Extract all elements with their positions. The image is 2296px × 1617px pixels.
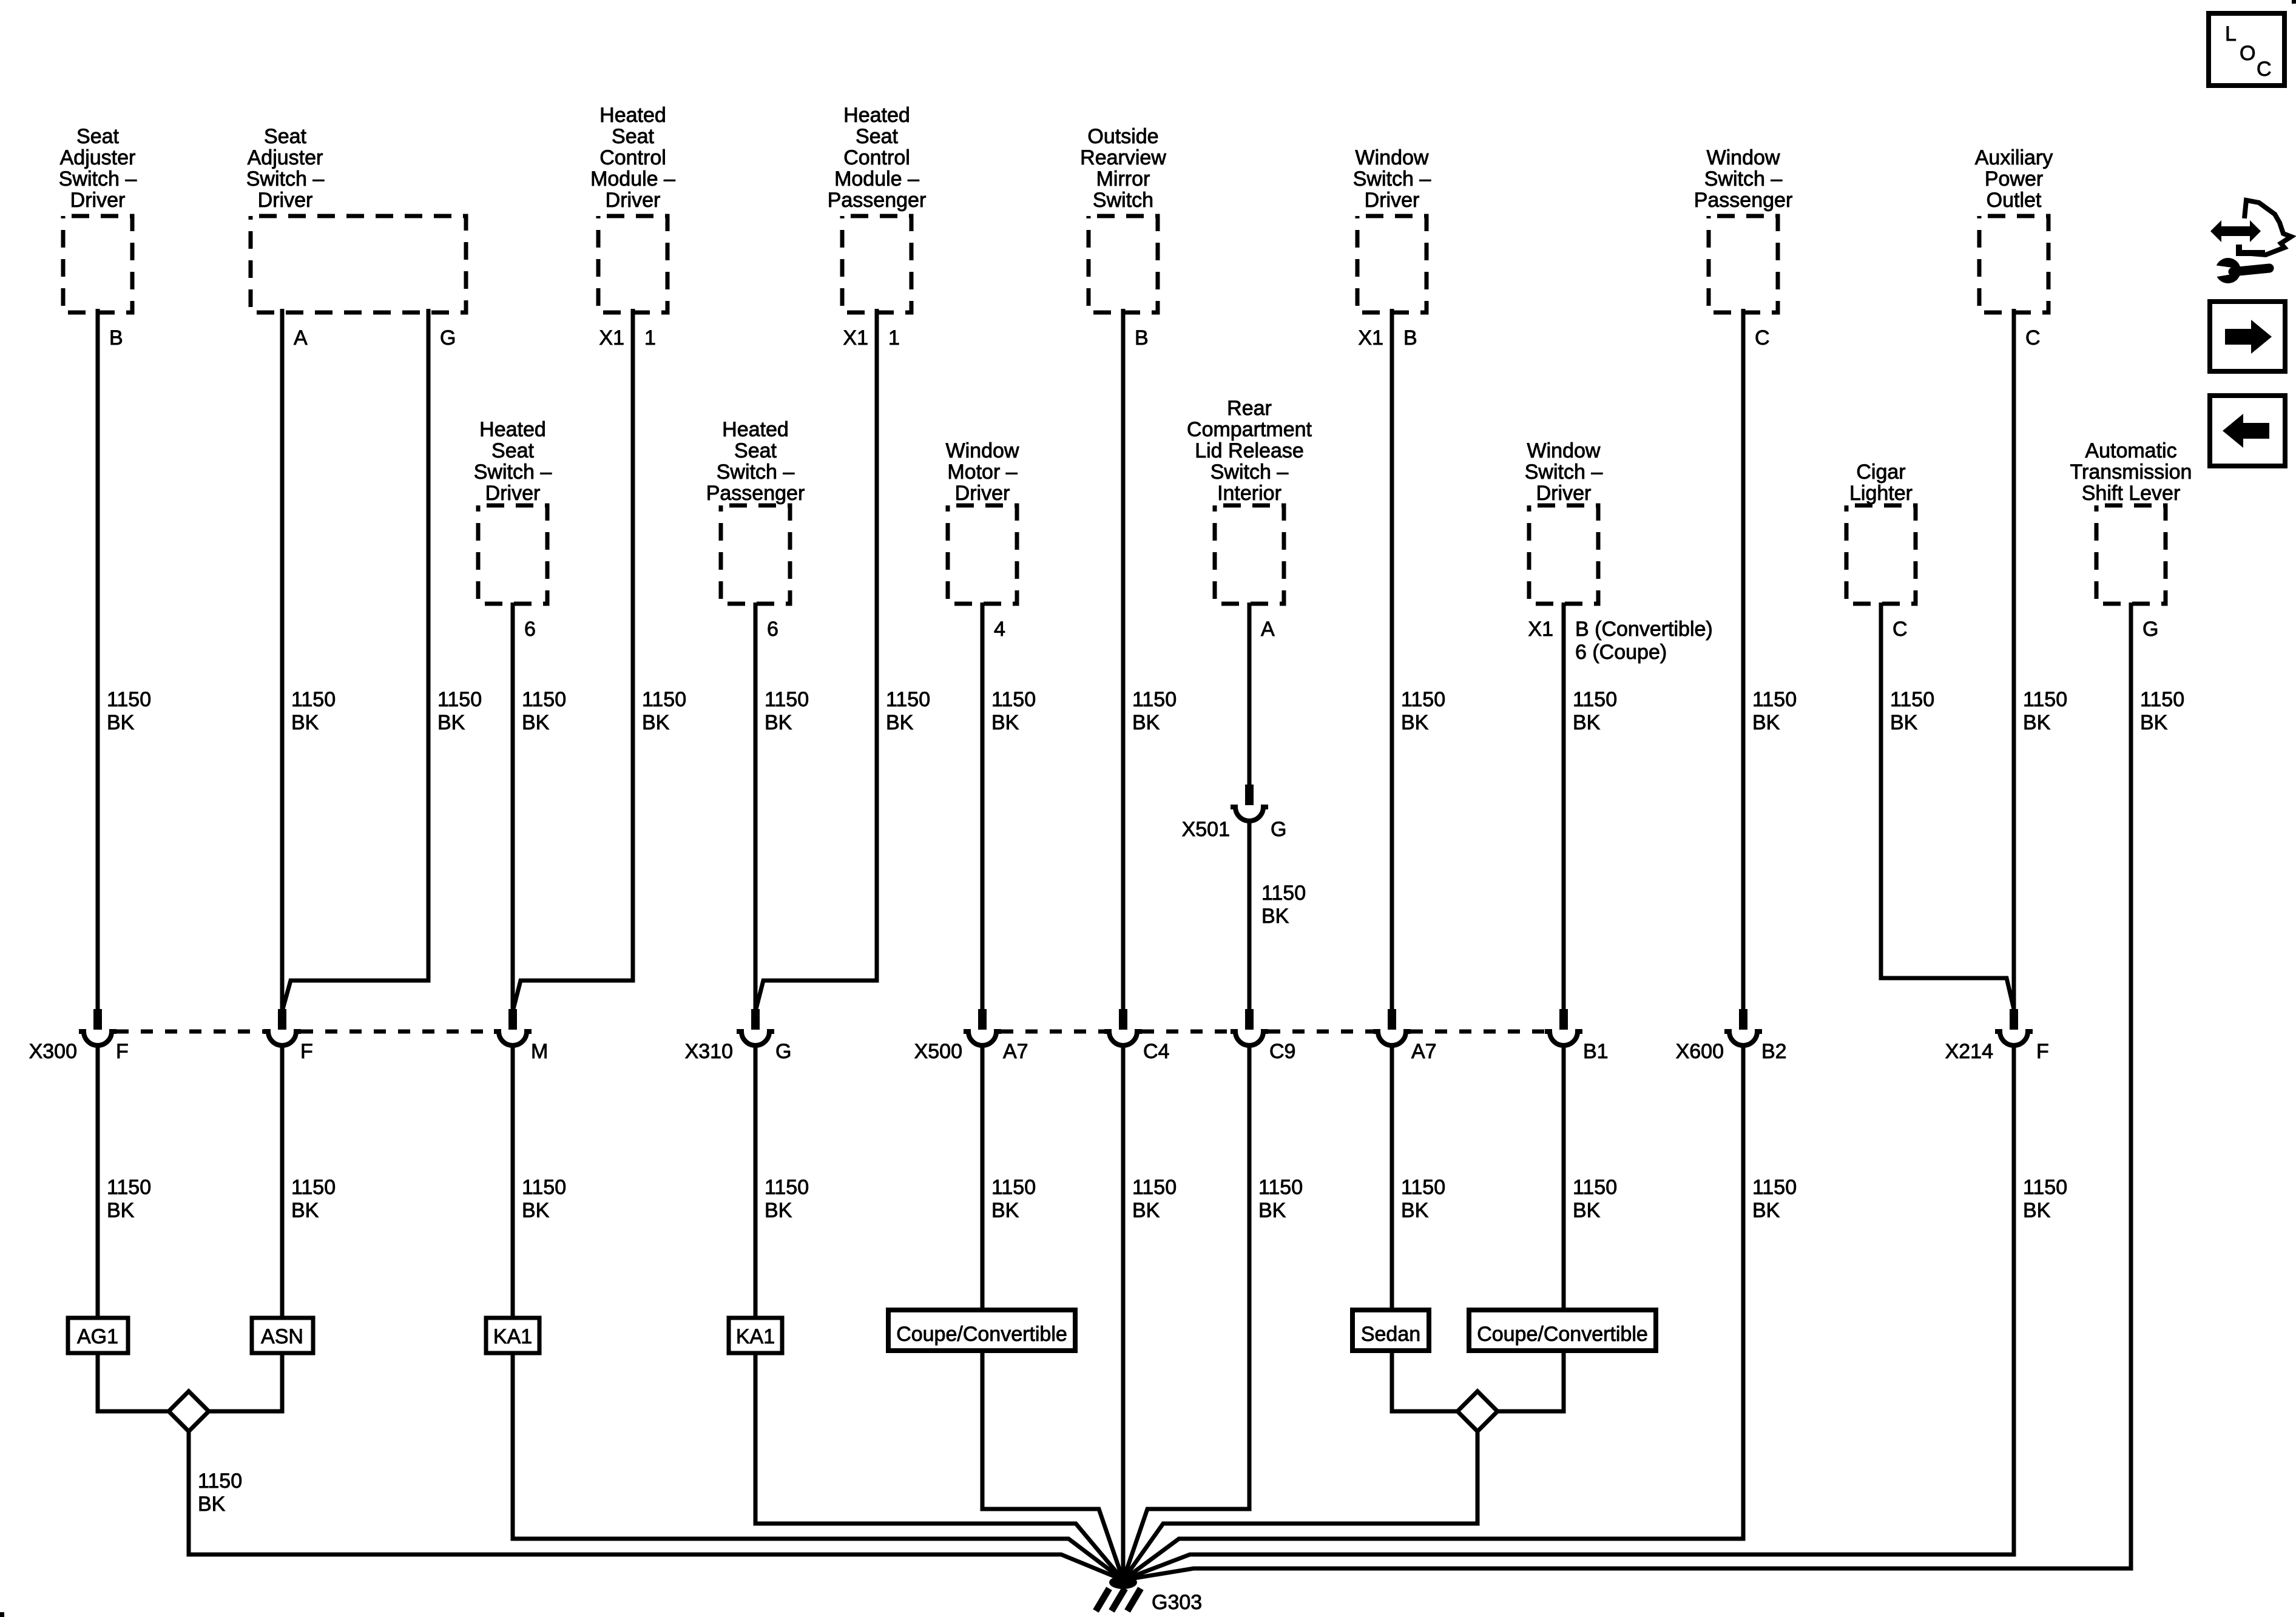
connector X300 pin M <box>494 1009 532 1045</box>
legend box: forward arrow <box>2210 302 2285 371</box>
component box: Heated Seat Switch - Driver <box>478 505 547 604</box>
connector X300 pin F (second) <box>263 1009 301 1045</box>
svg-text:M: M <box>531 1040 548 1063</box>
wire: splice diamond (Sedan/Coupe) to ground bus <box>1123 1431 1477 1580</box>
option box Sedan <box>1352 1310 1429 1351</box>
svg-text:F: F <box>116 1040 129 1063</box>
svg-text:B1: B1 <box>1583 1040 1609 1063</box>
svg-text:Driver: Driver <box>955 482 1010 505</box>
node label A7 (window switch) <box>1411 1040 1437 1063</box>
pin 6 of Heated Seat Switch - Passenger <box>767 618 778 641</box>
svg-text:X1: X1 <box>599 326 624 349</box>
wire label 1150 BK (lower, wire x=2294) <box>1401 1176 1445 1222</box>
label: Outside Rearview Mirror Switch <box>1080 125 1166 212</box>
svg-text:BK: BK <box>765 711 792 734</box>
svg-text:BK: BK <box>291 711 319 734</box>
svg-text:G: G <box>1271 818 1286 841</box>
svg-text:A: A <box>1261 618 1275 641</box>
svg-text:BK: BK <box>1132 1199 1160 1222</box>
svg-text:BK: BK <box>991 1199 1019 1222</box>
svg-text:6 (Coupe): 6 (Coupe) <box>1575 641 1667 664</box>
svg-text:1: 1 <box>644 326 656 349</box>
svg-text:BK: BK <box>522 711 550 734</box>
svg-text:A7: A7 <box>1411 1040 1437 1063</box>
svg-text:6: 6 <box>524 618 536 641</box>
component box: Window Switch - Driver (second row) <box>1529 505 1598 604</box>
wire label 1150 BK (upper, wire x=706) <box>437 688 482 734</box>
component box: Window Switch - Driver (top row) <box>1357 216 1427 312</box>
svg-text:1150: 1150 <box>1401 1176 1445 1199</box>
component box: Automatic Transmission Shift Lever <box>2096 505 2166 604</box>
label: Seat Adjuster Switch - Driver (wide) <box>246 125 325 212</box>
component box: Heated Seat Switch - Passenger <box>721 505 790 604</box>
svg-text:Driver: Driver <box>70 189 126 212</box>
wire: Rear Compartment Lid Release pin A down to splice X501 <box>1248 603 1252 786</box>
svg-text:BK: BK <box>1890 711 1918 734</box>
svg-text:1150: 1150 <box>886 688 930 711</box>
svg-text:KA1: KA1 <box>493 1325 532 1348</box>
wire label 1150 BK (lower, wire x=1245) <box>765 1176 809 1222</box>
svg-text:Switch –: Switch – <box>1353 167 1431 191</box>
wire label 1150 BK (upper, wire x=161) <box>107 688 151 734</box>
svg-text:Switch –: Switch – <box>717 461 795 484</box>
svg-text:1150: 1150 <box>107 1176 151 1199</box>
svg-text:X1: X1 <box>1358 326 1383 349</box>
svg-text:Switch –: Switch – <box>246 167 325 191</box>
svg-text:BK: BK <box>642 711 670 734</box>
component box: Heated Seat Control Module - Driver <box>598 216 667 312</box>
svg-text:BK: BK <box>765 1199 792 1222</box>
wire label 1150 BK (upper, wire x=1043) <box>642 688 686 734</box>
node label X600 B2 <box>1676 1040 1787 1063</box>
wire: connector F (second) down to ASN <box>280 1044 285 1318</box>
svg-text:1150: 1150 <box>642 688 686 711</box>
option box Coupe/Convertible (window motor) <box>888 1310 1075 1351</box>
svg-text:1150: 1150 <box>107 688 151 711</box>
svg-text:Outside: Outside <box>1087 125 1158 148</box>
svg-text:B (Convertible): B (Convertible) <box>1575 618 1713 641</box>
wire label 1150 BK (lower, wire x=3319) <box>2023 1176 2067 1222</box>
value box AG1 <box>68 1318 128 1353</box>
pin A of Rear Compartment Lid Release Switch <box>1261 618 1275 641</box>
wire label 1150 BK (lower, wire x=465) <box>291 1176 336 1222</box>
svg-text:F: F <box>300 1040 313 1063</box>
wire label 1150 BK (lower, wire x=161) <box>107 1176 151 1222</box>
svg-text:BK: BK <box>1752 1199 1780 1222</box>
svg-text:BK: BK <box>1401 711 1429 734</box>
svg-text:1150: 1150 <box>437 688 482 711</box>
wire: Heated Seat Control Module-Driver elbow to connector M <box>513 309 633 1009</box>
svg-text:1150: 1150 <box>1401 688 1445 711</box>
splice diamond (Sedan/Coupe) <box>1457 1391 1497 1431</box>
node label X501 G <box>1182 818 1287 841</box>
component box: Auxiliary Power Outlet <box>1979 216 2048 312</box>
dashed harness line X500 connectors A7-B1 <box>1411 1030 1545 1034</box>
svg-text:1150: 1150 <box>1132 688 1177 711</box>
wire label 1150 BK (lower, wire x=1619) <box>991 1176 1036 1222</box>
svg-text:G: G <box>440 326 456 349</box>
svg-text:1150: 1150 <box>991 1176 1036 1199</box>
svg-text:BK: BK <box>2023 711 2051 734</box>
wire label 1150 BK (lower, wire x=2577) <box>1573 1176 1617 1222</box>
legend icon: wrench with arrows (diagnostic) <box>2210 200 2291 283</box>
pin G of Seat Adjuster Switch - Driver (wide) <box>440 326 456 349</box>
label: Window Motor - Driver <box>946 439 1019 505</box>
svg-text:BK: BK <box>1132 711 1160 734</box>
pin 4 of Window Motor - Driver <box>994 618 1005 641</box>
wire label 1150 BK (splice diamond output) <box>198 1470 242 1516</box>
svg-text:O: O <box>2240 42 2255 65</box>
svg-text:Seat: Seat <box>491 439 534 462</box>
component box: Heated Seat Control Module - Passenger <box>842 216 911 312</box>
svg-text:Passenger: Passenger <box>828 189 927 212</box>
dashed harness line X500 connectors C9-A7 <box>1268 1030 1373 1034</box>
pin X1 B of Window Switch - Driver (top row) <box>1358 326 1417 349</box>
wire label 1150 BK (below splice X501) <box>1261 882 1306 928</box>
pin B of Outside Rearview Mirror Switch <box>1135 326 1149 349</box>
svg-text:AG1: AG1 <box>77 1325 118 1348</box>
svg-text:Window: Window <box>1356 146 1429 169</box>
svg-text:C9: C9 <box>1269 1040 1295 1063</box>
svg-text:1150: 1150 <box>1261 882 1306 905</box>
wire: connector M down to KA1 <box>511 1044 515 1318</box>
svg-text:Driver: Driver <box>485 482 541 505</box>
svg-text:Module –: Module – <box>834 167 919 191</box>
label: Automatic Transmission Shift Lever <box>2070 439 2192 505</box>
LOC legend box <box>2209 13 2284 86</box>
svg-text:Lighter: Lighter <box>1849 482 1913 505</box>
label: Window Switch - Driver (top row) <box>1353 146 1431 212</box>
pin A of Seat Adjuster Switch - Driver (wide) <box>294 326 308 349</box>
wire: KA1 down to ground bus <box>513 1353 1123 1580</box>
pin B of Seat Adjuster Switch - Driver (left) <box>109 326 123 349</box>
wire: connector C9 down to ground bus <box>1123 1044 1249 1580</box>
svg-text:C: C <box>1755 326 1770 349</box>
wire: Heated Seat Switch-Driver pin 6 down to connector M <box>511 603 515 1011</box>
svg-text:Auxiliary: Auxiliary <box>1975 146 2053 169</box>
svg-text:X1: X1 <box>843 326 868 349</box>
svg-text:Cigar: Cigar <box>1856 461 1905 484</box>
legend icon: left arrow <box>2223 414 2269 448</box>
svg-text:X214: X214 <box>1945 1040 1993 1063</box>
wire label 1150 BK (upper, wire x=1851) <box>1132 688 1177 734</box>
svg-text:Sedan: Sedan <box>1361 1323 1420 1346</box>
svg-text:Control: Control <box>599 146 666 169</box>
legend icon: right arrow <box>2225 320 2272 354</box>
svg-text:Rearview: Rearview <box>1080 146 1166 169</box>
svg-text:G: G <box>775 1040 791 1063</box>
wire: Auxiliary Power Outlet down to connector X214 F <box>2012 309 2016 1011</box>
wire: Cigar Lighter elbow to connector X214 F <box>1881 603 2014 1009</box>
connector X500 pin C9 <box>1231 1009 1268 1045</box>
label: Auxiliary Power Outlet <box>1975 146 2053 212</box>
component box: Seat Adjuster Switch - Driver (wide) <box>251 216 466 312</box>
svg-text:BK: BK <box>291 1199 319 1222</box>
svg-text:1150: 1150 <box>1132 1176 1177 1199</box>
label: Heated Seat Control Module - Driver <box>590 104 675 212</box>
component box: Seat Adjuster Switch - Driver (left) <box>63 216 132 312</box>
svg-text:Seat: Seat <box>856 125 898 148</box>
svg-text:Passenger: Passenger <box>706 482 805 505</box>
dashed harness line X500 connectors C4-C9 <box>1142 1030 1231 1034</box>
label: Heated Seat Switch - Passenger <box>706 418 805 505</box>
wire label 1150 BK (lower, wire x=1851) <box>1132 1176 1177 1222</box>
svg-text:Heated: Heated <box>479 418 546 441</box>
value box KA1 (second) <box>729 1318 782 1353</box>
wire: connector X214 F down to ground bus <box>1123 1044 2014 1580</box>
dashed harness line X300 connectors F-M <box>301 1030 494 1034</box>
wire: connector B1 down through Coupe/Convertible to splice diamond <box>1497 1044 1564 1411</box>
label: Window Switch - Driver (second row) <box>1525 439 1603 505</box>
pin X1 1 of Heated Seat Control Module - Passenger <box>843 326 900 349</box>
svg-text:Passenger: Passenger <box>1694 189 1793 212</box>
svg-text:Shift Lever: Shift Lever <box>2082 482 2181 505</box>
connector X500 pin A7 <box>964 1009 1001 1045</box>
option box Coupe/Convertible (window switch) <box>1469 1310 1656 1351</box>
node label M <box>531 1040 548 1063</box>
wire: Outside Rearview Mirror Switch pin B down to connector C4 <box>1121 309 1126 1011</box>
svg-text:1150: 1150 <box>1573 1176 1617 1199</box>
svg-text:X500: X500 <box>914 1040 962 1063</box>
svg-text:C4: C4 <box>1143 1040 1169 1063</box>
label: Window Switch - Passenger <box>1694 146 1793 212</box>
svg-text:Switch –: Switch – <box>59 167 137 191</box>
wire: Seat Adjuster Switch-Driver pin B down to connector X300 F <box>96 309 100 1011</box>
svg-text:Seat: Seat <box>264 125 306 148</box>
svg-text:1150: 1150 <box>2023 688 2067 711</box>
svg-text:B2: B2 <box>1761 1040 1787 1063</box>
wire: Window Switch-Driver (top) down to connector A7 <box>1390 309 1394 1011</box>
svg-text:C: C <box>2025 326 2041 349</box>
svg-text:1150: 1150 <box>198 1470 242 1493</box>
svg-text:Coupe/Convertible: Coupe/Convertible <box>1477 1323 1648 1346</box>
svg-text:Control: Control <box>843 146 910 169</box>
page corner mark (bottom left) <box>0 1612 4 1617</box>
splice connector X501 pin G <box>1231 785 1268 821</box>
svg-text:BK: BK <box>1261 905 1289 928</box>
svg-text:Window: Window <box>946 439 1019 462</box>
node label X310 G <box>685 1040 792 1063</box>
svg-text:B: B <box>1135 326 1149 349</box>
svg-text:Transmission: Transmission <box>2070 461 2192 484</box>
svg-text:Driver: Driver <box>1536 482 1592 505</box>
svg-text:1150: 1150 <box>2140 688 2184 711</box>
svg-text:Switch: Switch <box>1093 189 1153 212</box>
svg-text:Heated: Heated <box>843 104 910 127</box>
svg-text:BK: BK <box>107 1199 135 1222</box>
svg-text:1150: 1150 <box>1258 1176 1303 1199</box>
svg-text:Switch –: Switch – <box>1704 167 1783 191</box>
wire: connector C4 straight down to ground G303 <box>1121 1044 1126 1580</box>
svg-text:1150: 1150 <box>522 688 566 711</box>
svg-text:BK: BK <box>2023 1199 2051 1222</box>
wire: connector F down to AG1 <box>96 1044 100 1318</box>
wire label 1150 BK (upper, wire x=845) <box>522 688 566 734</box>
svg-text:KA1: KA1 <box>736 1325 775 1348</box>
svg-text:BK: BK <box>991 711 1019 734</box>
wire: splice diamond (AG1/ASN) to ground bus <box>189 1431 1123 1580</box>
wire: Seat Adjuster Switch-Driver pin G elbow to connector F <box>283 309 428 1009</box>
label: Heated Seat Switch - Driver <box>474 418 552 505</box>
svg-text:BK: BK <box>2140 711 2168 734</box>
svg-text:1150: 1150 <box>765 688 809 711</box>
svg-text:Seat: Seat <box>76 125 119 148</box>
svg-text:Module –: Module – <box>590 167 675 191</box>
svg-text:Switch –: Switch – <box>474 461 552 484</box>
svg-text:BK: BK <box>522 1199 550 1222</box>
wire label 1150 BK (upper, wire x=3512) <box>2140 688 2184 734</box>
component box: Window Switch - Passenger <box>1709 216 1778 312</box>
svg-text:A7: A7 <box>1003 1040 1028 1063</box>
svg-text:C: C <box>2257 58 2272 81</box>
svg-text:Adjuster: Adjuster <box>60 146 136 169</box>
label: Heated Seat Control Module - Passenger <box>828 104 927 212</box>
node label F (second) <box>300 1040 313 1063</box>
svg-text:Switch –: Switch – <box>1210 461 1289 484</box>
wire: Automatic Transmission Shift Lever down to ground bus <box>1123 603 2131 1580</box>
dashed harness line X500 connectors A7-C4 <box>1001 1030 1104 1034</box>
svg-text:ASN: ASN <box>261 1325 303 1348</box>
svg-text:1150: 1150 <box>291 1176 336 1199</box>
dashed harness line X300 connectors F-F <box>116 1030 263 1034</box>
wire: Heated Seat Switch-Passenger pin 6 down to connector X310 G <box>754 603 758 1011</box>
svg-text:1150: 1150 <box>1752 688 1797 711</box>
wire label 1150 BK (upper, wire x=3100) <box>1890 688 1934 734</box>
svg-text:BK: BK <box>886 711 914 734</box>
wire: connector A7 down through Sedan to splice diamond <box>1392 1044 1457 1411</box>
svg-text:1150: 1150 <box>291 688 336 711</box>
svg-text:X1: X1 <box>1528 618 1553 641</box>
component box: Outside Rearview Mirror Switch <box>1089 216 1158 312</box>
wire: Window Switch-Passenger down to connector X600 B2 <box>1741 309 1746 1011</box>
node label X500 A7 <box>914 1040 1028 1063</box>
wire label 1150 BK (upper, wire x=465) <box>291 688 336 734</box>
pin X1 1 of Heated Seat Control Module - Driver <box>599 326 656 349</box>
svg-text:1150: 1150 <box>991 688 1036 711</box>
svg-text:6: 6 <box>767 618 778 641</box>
svg-text:B: B <box>1403 326 1417 349</box>
wire: Window Motor-Driver pin 4 down to connector X500 A7 <box>981 603 985 1011</box>
LOC legend letters <box>2225 22 2272 81</box>
node label B1 <box>1583 1040 1609 1063</box>
svg-text:Heated: Heated <box>599 104 666 127</box>
wire label 1150 BK (lower, wire x=2873) <box>1752 1176 1797 1222</box>
svg-text:Interior: Interior <box>1217 482 1281 505</box>
wire: Window Switch-Driver (second row) down to connector B1 <box>1562 603 1566 1011</box>
svg-text:Lid Release: Lid Release <box>1195 439 1304 462</box>
svg-text:Compartment: Compartment <box>1187 418 1312 441</box>
wire label 1150 BK (upper, wire x=2873) <box>1752 688 1797 734</box>
svg-text:BK: BK <box>107 711 135 734</box>
pin C of Cigar Lighter <box>1893 618 1908 641</box>
connector X310 pin G <box>737 1009 774 1045</box>
node label C9 <box>1269 1040 1295 1063</box>
svg-text:1150: 1150 <box>522 1176 566 1199</box>
wire label 1150 BK (lower, wire x=2059) <box>1258 1176 1303 1222</box>
pin G of Automatic Transmission Shift Lever <box>2142 618 2158 641</box>
wire label 1150 BK (upper, wire x=1245) <box>765 688 809 734</box>
svg-text:1150: 1150 <box>765 1176 809 1199</box>
pin X1 B/6 of Window Switch - Driver (second row) <box>1528 618 1712 664</box>
connector X500 pin B1 <box>1545 1009 1582 1045</box>
svg-text:X300: X300 <box>29 1040 77 1063</box>
value box ASN <box>252 1318 313 1353</box>
value box KA1 <box>486 1318 539 1353</box>
svg-text:Heated: Heated <box>722 418 789 441</box>
svg-text:1150: 1150 <box>1573 688 1617 711</box>
wire label 1150 BK (upper, wire x=1619) <box>991 688 1036 734</box>
wire: splice X501 down to connector C9 <box>1248 820 1252 1011</box>
svg-text:1150: 1150 <box>1890 688 1934 711</box>
wire: connector X310 G down to KA1 (second) <box>754 1044 758 1318</box>
node label X214 F <box>1945 1040 2049 1063</box>
wire label 1150 BK (upper, wire x=2294) <box>1401 688 1445 734</box>
pin C of Window Switch - Passenger <box>1755 326 1770 349</box>
component box: Window Motor - Driver <box>948 505 1017 604</box>
svg-text:1150: 1150 <box>1752 1176 1797 1199</box>
component box: Cigar Lighter <box>1846 505 1916 604</box>
svg-text:G: G <box>2142 618 2158 641</box>
wire: Seat Adjuster Switch-Driver pin A down to connector F <box>280 309 285 1011</box>
connector X500 pin A7 (window switch) <box>1373 1009 1411 1045</box>
svg-text:X600: X600 <box>1676 1040 1724 1063</box>
pin C of Auxiliary Power Outlet <box>2025 326 2041 349</box>
svg-text:A: A <box>294 326 308 349</box>
svg-text:BK: BK <box>1258 1199 1286 1222</box>
svg-text:Rear: Rear <box>1227 397 1272 420</box>
svg-text:X310: X310 <box>685 1040 733 1063</box>
svg-text:1150: 1150 <box>2023 1176 2067 1199</box>
wire: connector X600 B2 down to ground bus <box>1123 1044 1743 1580</box>
wire label 1150 BK (upper, wire x=1445) <box>886 688 930 734</box>
svg-text:BK: BK <box>1573 711 1601 734</box>
wire label 1150 BK (upper, wire x=2577) <box>1573 688 1617 734</box>
svg-text:BK: BK <box>1573 1199 1601 1222</box>
wire: Heated Seat Control Module-Passenger elbow to connector X310 G <box>756 309 877 1009</box>
svg-text:4: 4 <box>994 618 1005 641</box>
svg-text:Automatic: Automatic <box>2085 439 2176 462</box>
connector X300 pin F <box>79 1009 116 1045</box>
svg-text:Adjuster: Adjuster <box>248 146 323 169</box>
wire label 1150 BK (upper, wire x=3319) <box>2023 688 2067 734</box>
wire: AG1 down to splice diamond <box>98 1353 169 1411</box>
svg-text:F: F <box>2036 1040 2049 1063</box>
svg-text:Driver: Driver <box>1365 189 1420 212</box>
svg-text:Switch –: Switch – <box>1525 461 1603 484</box>
wire: connector X500 A7 down through Coupe/Convertible to ground bus <box>982 1044 1123 1580</box>
label: Rear Compartment Lid Release Switch - Interior <box>1187 397 1312 505</box>
pin 6 of Heated Seat Switch - Driver <box>524 618 536 641</box>
svg-text:Motor –: Motor – <box>947 461 1017 484</box>
svg-text:Seat: Seat <box>612 125 654 148</box>
page corner mark (top right) <box>2292 0 2296 4</box>
node label G303 <box>1152 1591 1202 1614</box>
svg-text:C: C <box>1893 618 1908 641</box>
connector X600 pin B2 <box>1724 1009 1762 1045</box>
svg-text:B: B <box>109 326 123 349</box>
splice diamond (AG1/ASN) <box>169 1391 209 1431</box>
svg-text:G303: G303 <box>1152 1591 1202 1614</box>
svg-text:Coupe/Convertible: Coupe/Convertible <box>896 1323 1067 1346</box>
node label C4 <box>1143 1040 1169 1063</box>
connector X500 pin C4 <box>1104 1009 1142 1045</box>
ground G303 junction blob <box>1109 1576 1137 1589</box>
svg-text:Window: Window <box>1707 146 1780 169</box>
wire label 1150 BK (lower, wire x=845) <box>522 1176 566 1222</box>
legend box: back arrow <box>2210 396 2285 466</box>
label: Cigar Lighter <box>1849 461 1913 505</box>
label: Seat Adjuster Switch - Driver (left) <box>59 125 137 212</box>
